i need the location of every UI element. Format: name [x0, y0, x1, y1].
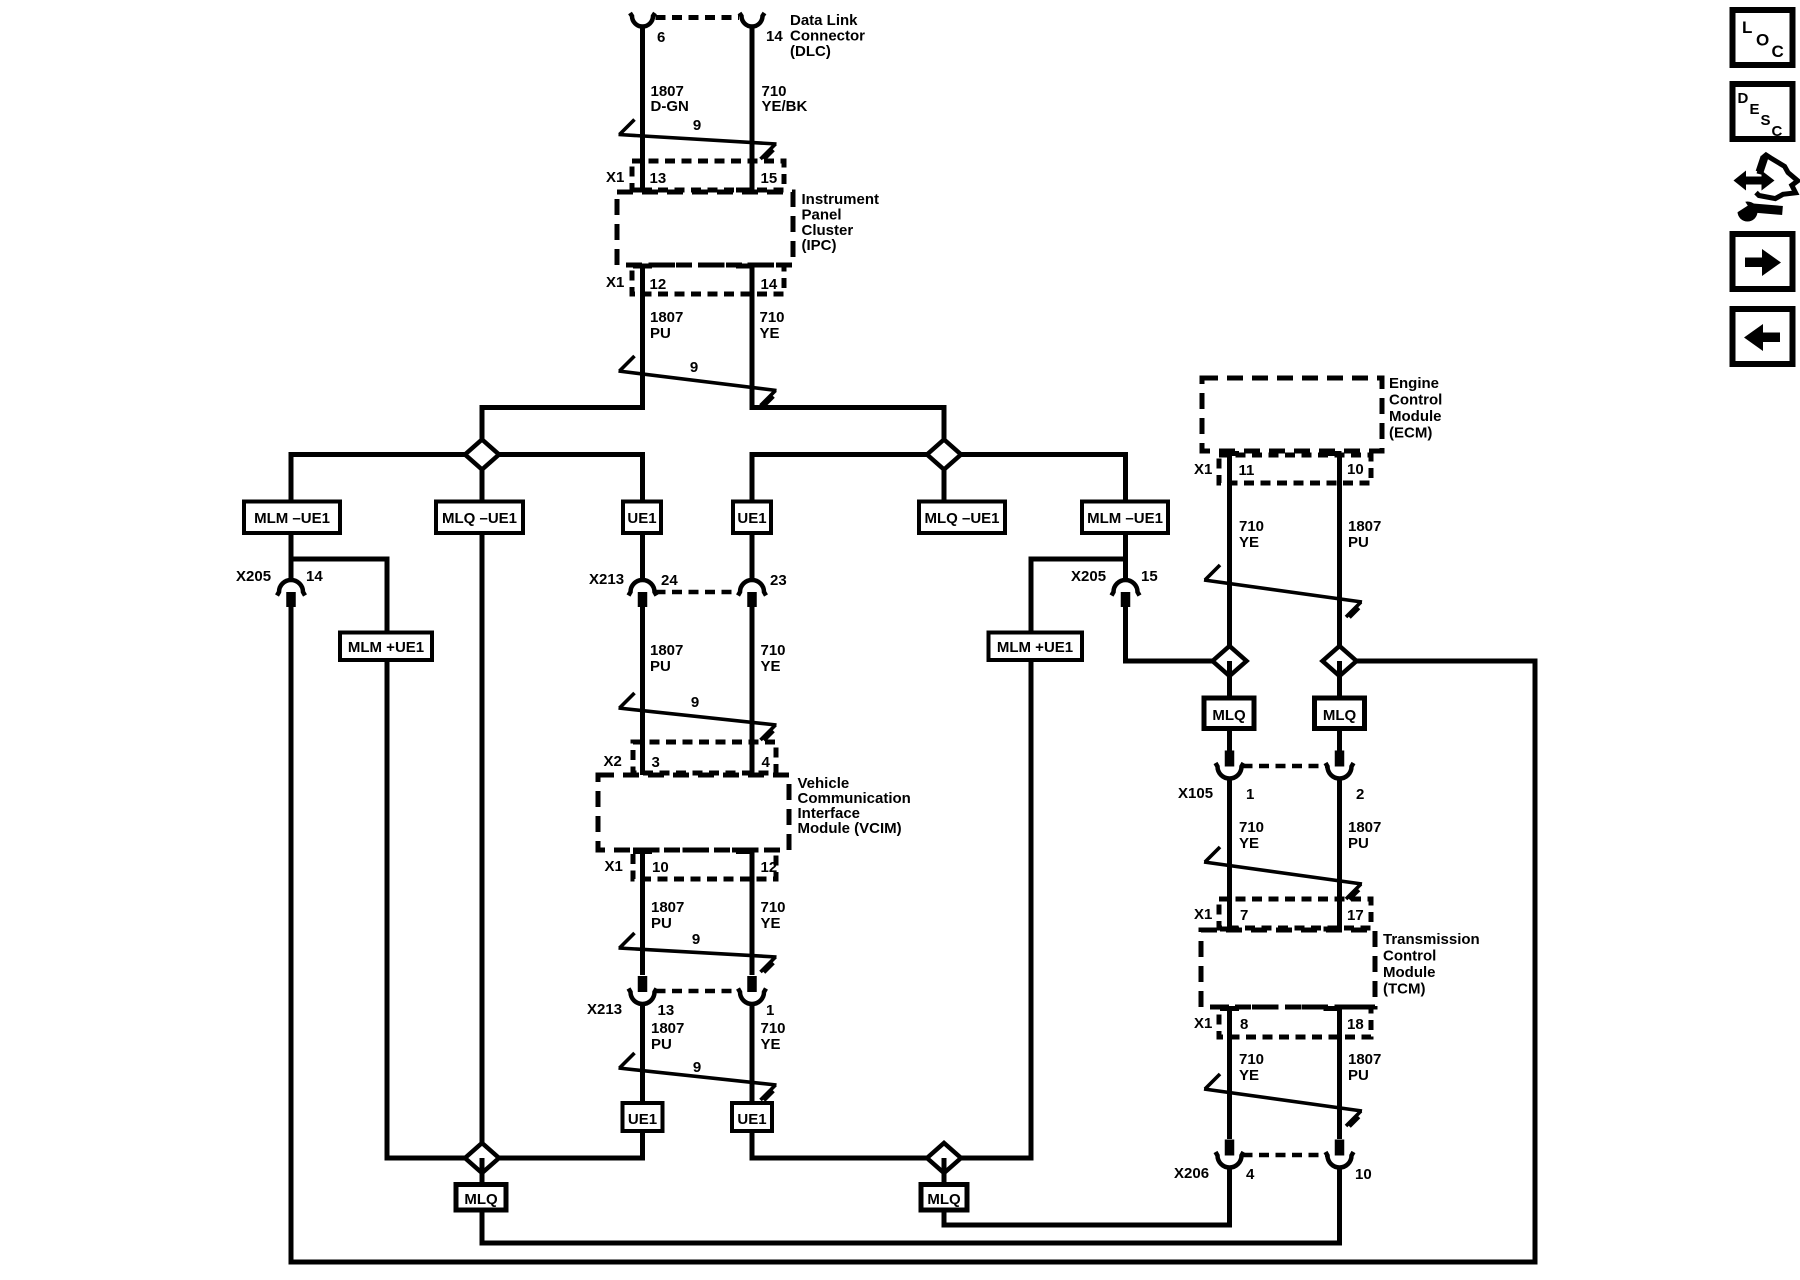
svg-text:710: 710 — [760, 309, 785, 326]
wire drop to MLM -UE1 right — [1123, 452, 1128, 502]
twisted pair symbol 9 (top) — [619, 135, 777, 145]
svg-text:X105: X105 — [1178, 785, 1213, 802]
X213 lower connector dashed link — [656, 989, 740, 994]
svg-text:UE1: UE1 — [627, 510, 656, 527]
svg-text:710: 710 — [1239, 1051, 1264, 1068]
svg-text:710: 710 — [761, 1020, 786, 1037]
svg-text:Engine: Engine — [1389, 375, 1439, 392]
wire 1807 PU to X206 — [1337, 1009, 1342, 1140]
wire drop to MLQ -UE1 left — [480, 455, 485, 502]
wire cap pin 11 — [1220, 451, 1239, 456]
svg-text:O: O — [1756, 31, 1769, 50]
wire 1807 PU from IPC pin 12 — [482, 266, 643, 455]
svg-text:9: 9 — [693, 1059, 701, 1076]
svg-text:15: 15 — [761, 170, 778, 187]
wire MLQ right to X206 pin 4 — [944, 1166, 1230, 1225]
connector X206 pin 4 — [1225, 1140, 1235, 1156]
net label box MLQ (1807) — [1315, 698, 1365, 729]
net label box UE1 (bottom right) — [732, 1103, 772, 1131]
DLC connector dashed link — [656, 15, 740, 20]
svg-text:X1: X1 — [605, 858, 623, 875]
svg-text:PU: PU — [1348, 534, 1369, 551]
svg-text:UE1: UE1 — [737, 1111, 766, 1128]
svg-text:YE/BK: YE/BK — [762, 98, 808, 115]
wire cap pin 17 — [1324, 927, 1342, 932]
wire diamond to MLQ box (1807) — [1337, 661, 1342, 698]
wire 710 YE from IPC pin 14 — [752, 266, 944, 455]
net label box UE1 (right) — [733, 502, 771, 534]
IPC connector row X1 pins 12/14 — [632, 265, 784, 294]
svg-text:(TCM): (TCM) — [1383, 981, 1425, 998]
wire MLM -UE1 right to X205 pin 15 — [1123, 533, 1128, 581]
junction diamond ECM 710 — [1213, 646, 1247, 676]
wire 1807 PU to TCM — [1337, 777, 1342, 929]
connector X205 pin 14 — [277, 580, 305, 596]
sidebar icon LOC box — [1733, 10, 1793, 65]
svg-text:9: 9 — [693, 117, 701, 134]
svg-text:10: 10 — [1347, 461, 1364, 478]
svg-text:1: 1 — [1246, 786, 1254, 803]
VCIM connector row X1 pins 10/12 — [633, 850, 776, 879]
svg-text:L: L — [1742, 18, 1752, 37]
svg-text:710: 710 — [1239, 518, 1264, 535]
connector DLC pin 14 (cup) — [740, 13, 765, 27]
svg-text:X1: X1 — [606, 274, 624, 291]
svg-text:1807: 1807 — [650, 642, 683, 659]
net label box MLQ -UE1 (left) — [436, 502, 523, 534]
net label box MLM +UE1 (right) — [989, 633, 1083, 661]
svg-text:MLM +UE1: MLM +UE1 — [348, 639, 424, 656]
svg-text:MLM –UE1: MLM –UE1 — [254, 510, 330, 527]
svg-text:9: 9 — [691, 694, 699, 711]
module box Instrument Panel Cluster — [617, 192, 793, 265]
wire UE1 left to X213 pin 24 — [640, 533, 645, 581]
wire MLQ -UE1 left vertical — [480, 533, 485, 1145]
wire UE1 right to X213 pin 23 — [750, 533, 755, 581]
wire MLQ to X105 pin 2 — [1337, 729, 1342, 753]
junction diamond bottom left — [465, 1143, 499, 1173]
wire cap pin 13 — [633, 188, 652, 193]
twisted pair symbol (TCM lower) — [1204, 1089, 1362, 1111]
svg-text:E: E — [1750, 101, 1760, 118]
svg-text:D: D — [1738, 90, 1749, 107]
VCIM connector row X2 pins 3/4 — [633, 742, 776, 773]
svg-text:1807: 1807 — [1348, 1051, 1381, 1068]
wire X205-15 to diamond — [1126, 606, 1230, 661]
net label box MLQ (bottom right) — [921, 1185, 967, 1211]
sidebar icon back arrow box — [1733, 309, 1793, 364]
svg-text:Module: Module — [1383, 964, 1436, 981]
wire cap pin 10 — [1324, 451, 1342, 456]
twisted pair symbol 9 (fourth) — [619, 948, 777, 957]
ECM connector row X1 pins 11/10 — [1219, 455, 1371, 483]
svg-text:Control: Control — [1389, 392, 1442, 409]
TCM connector row X1 pins 8/18 — [1219, 1007, 1371, 1037]
X105 connector dashed link — [1243, 764, 1327, 769]
svg-text:YE: YE — [1239, 835, 1259, 852]
wire 1807 PU from ECM pin 10 — [1337, 454, 1342, 662]
wire cap pin 18 — [1324, 1006, 1342, 1011]
wire X205-14 outer loop — [291, 606, 1535, 1262]
svg-text:MLQ: MLQ — [1323, 707, 1357, 724]
svg-text:X1: X1 — [1194, 461, 1212, 478]
svg-text:MLM +UE1: MLM +UE1 — [997, 639, 1073, 656]
X206 connector dashed link — [1243, 1153, 1327, 1158]
svg-text:4: 4 — [762, 754, 771, 771]
junction diamond bottom right — [927, 1143, 961, 1173]
net label box MLQ -UE1 (right) — [919, 502, 1005, 534]
module box Vehicle Communication Interface Module — [598, 775, 789, 850]
svg-text:1807: 1807 — [651, 1020, 684, 1037]
svg-text:C: C — [1772, 123, 1783, 140]
wire cap pin 10 — [633, 849, 652, 854]
svg-text:10: 10 — [652, 859, 669, 876]
bottom bus wire left — [387, 1156, 643, 1161]
net label box MLM +UE1 (left) — [340, 633, 432, 661]
svg-text:PU: PU — [1348, 1067, 1369, 1084]
twisted pair symbol (ECM) — [1204, 580, 1362, 602]
svg-text:6: 6 — [657, 29, 665, 46]
svg-text:(IPC): (IPC) — [802, 237, 837, 254]
svg-text:710: 710 — [761, 642, 786, 659]
svg-text:X205: X205 — [1071, 568, 1106, 585]
svg-text:MLQ –UE1: MLQ –UE1 — [442, 510, 517, 527]
bus wire right (UE1/MLQ/MLM) — [752, 452, 1126, 457]
svg-text:23: 23 — [770, 572, 787, 589]
svg-text:9: 9 — [690, 359, 698, 376]
connector X206 pin 10 — [1335, 1140, 1345, 1156]
wire drop to MLM -UE1 left — [289, 452, 294, 502]
svg-text:S: S — [1761, 112, 1771, 129]
twisted pair symbol 9 (fifth) — [619, 1068, 777, 1085]
wire cap pin 12 — [736, 849, 754, 854]
sidebar icon diagnostic arrows and wrench — [1734, 155, 1798, 222]
svg-text:X1: X1 — [1194, 1015, 1212, 1032]
svg-text:7: 7 — [1240, 907, 1248, 924]
twisted pair symbol 9 (second) — [619, 371, 777, 391]
svg-text:Transmission: Transmission — [1383, 931, 1480, 948]
svg-text:10: 10 — [1355, 1166, 1372, 1183]
wire MLQ left to X206 pin 10 — [482, 1166, 1340, 1243]
svg-text:9: 9 — [692, 931, 700, 948]
svg-text:(ECM): (ECM) — [1389, 425, 1432, 442]
svg-text:1: 1 — [766, 1002, 774, 1019]
svg-text:1807: 1807 — [1348, 518, 1381, 535]
wire 710 YE to X206 — [1227, 1009, 1232, 1140]
twisted pair symbol 9 (third) — [619, 708, 777, 725]
wire 710 YE/BK from DLC pin 14 — [750, 27, 755, 190]
svg-text:PU: PU — [651, 1036, 672, 1053]
svg-text:14: 14 — [761, 276, 778, 293]
svg-text:MLQ: MLQ — [1212, 707, 1246, 724]
IPC connector row X1 pins 13/15 — [632, 161, 784, 190]
connector X213 pin 23 — [738, 580, 766, 596]
TCM connector row X1 pins 7/17 — [1219, 899, 1371, 928]
svg-text:PU: PU — [650, 325, 671, 342]
wire 710 YE from VCIM pin 12 — [750, 852, 755, 976]
wire MLM -UE1 to X205 pin 14 — [289, 533, 294, 581]
svg-text:24: 24 — [661, 572, 678, 589]
svg-text:11: 11 — [1239, 462, 1255, 479]
svg-text:Connector: Connector — [790, 28, 865, 45]
svg-text:710: 710 — [761, 899, 786, 916]
wire 710 YE to VCIM — [750, 605, 755, 775]
wire 1807 PU to VCIM — [640, 605, 645, 775]
svg-text:MLQ: MLQ — [464, 1191, 498, 1208]
twisted pair symbol (TCM upper) — [1204, 862, 1362, 884]
svg-text:4: 4 — [1246, 1166, 1255, 1183]
branch wire to MLM +UE1 right — [1031, 559, 1126, 633]
bottom bus wire right — [752, 1156, 1031, 1161]
wire 1807 D-GN from DLC pin 6 — [640, 27, 645, 190]
connector X105 pin 1 — [1225, 751, 1235, 767]
wire cap pin 14 — [736, 264, 754, 269]
svg-text:8: 8 — [1240, 1016, 1248, 1033]
svg-text:MLQ –UE1: MLQ –UE1 — [924, 510, 999, 527]
svg-text:15: 15 — [1141, 568, 1158, 585]
svg-text:YE: YE — [761, 915, 781, 932]
module box Transmission Control Module — [1201, 930, 1375, 1007]
svg-text:14: 14 — [766, 28, 783, 45]
module box Engine Control Module — [1202, 378, 1382, 451]
svg-text:12: 12 — [761, 859, 778, 876]
junction diamond ECM 1807 — [1323, 646, 1357, 676]
wire cap pin 15 — [736, 188, 754, 193]
wire MLM +UE1 right to bottom bus — [1029, 660, 1034, 1161]
svg-text:12: 12 — [650, 276, 667, 293]
wire 710 YE to UE1 — [750, 1002, 755, 1161]
sidebar icon DESC box — [1733, 84, 1793, 139]
connector X213 pin 24 — [629, 580, 657, 596]
wire cap pin 12 — [633, 264, 652, 269]
svg-text:MLM –UE1: MLM –UE1 — [1087, 510, 1163, 527]
connector X105 pin 2 — [1335, 751, 1345, 767]
svg-text:1807: 1807 — [650, 309, 683, 326]
svg-text:X1: X1 — [606, 169, 624, 186]
svg-text:UE1: UE1 — [628, 1111, 657, 1128]
wire drop to MLQ -UE1 right — [942, 455, 947, 502]
svg-text:C: C — [1772, 42, 1784, 61]
svg-text:X213: X213 — [587, 1001, 622, 1018]
net label box MLQ (710) — [1204, 698, 1254, 729]
net label box MLM -UE1 (right) — [1082, 502, 1168, 534]
svg-text:PU: PU — [650, 658, 671, 675]
junction diamond left bus — [465, 440, 499, 470]
svg-text:X2: X2 — [604, 753, 622, 770]
svg-text:14: 14 — [306, 568, 323, 585]
wire drop to UE1 right — [750, 452, 755, 502]
wire 1807 PU from VCIM pin 10 — [640, 852, 645, 976]
svg-text:PU: PU — [1348, 835, 1369, 852]
svg-text:UE1: UE1 — [737, 510, 766, 527]
connector X213 pin 1 — [747, 976, 757, 992]
svg-text:MLQ: MLQ — [927, 1191, 961, 1208]
svg-text:YE: YE — [760, 325, 780, 342]
wire cap pin 7 — [1220, 927, 1239, 932]
X213 connector dashed link — [656, 590, 740, 595]
svg-text:Module: Module — [1389, 408, 1442, 425]
sidebar icon forward arrow box — [1733, 234, 1793, 289]
svg-text:(DLC): (DLC) — [790, 43, 831, 60]
svg-text:13: 13 — [650, 170, 667, 187]
bus wire left (MLM/MLQ/UE1) — [291, 452, 643, 457]
svg-text:1807: 1807 — [651, 899, 684, 916]
net label box UE1 (left) — [623, 502, 661, 534]
svg-text:X213: X213 — [589, 571, 624, 588]
svg-text:YE: YE — [1239, 534, 1259, 551]
svg-text:Control: Control — [1383, 948, 1436, 965]
connector X205 pin 15 — [1112, 580, 1140, 596]
svg-text:18: 18 — [1347, 1016, 1364, 1033]
wire drop to UE1 left — [640, 452, 645, 502]
net label box UE1 (bottom left) — [623, 1103, 663, 1131]
wire diamond to MLQ box (710) — [1227, 661, 1232, 698]
svg-text:D-GN: D-GN — [651, 98, 689, 115]
net label box MLM -UE1 (left) — [244, 502, 340, 534]
svg-text:X205: X205 — [236, 568, 271, 585]
wire cap pin 8 — [1220, 1006, 1239, 1011]
wire 710 YE to TCM — [1227, 777, 1232, 929]
svg-text:Data Link: Data Link — [790, 12, 858, 29]
svg-text:710: 710 — [1239, 819, 1264, 836]
junction diamond right bus — [927, 440, 961, 470]
svg-text:13: 13 — [658, 1002, 675, 1019]
connector DLC pin 6 (cup) — [630, 13, 655, 27]
svg-text:X206: X206 — [1174, 1165, 1209, 1182]
wire 1807 PU to UE1 — [640, 1002, 645, 1161]
wire diamond to MLQ box left — [480, 1158, 485, 1185]
svg-text:YE: YE — [1239, 1067, 1259, 1084]
svg-text:3: 3 — [652, 754, 660, 771]
svg-text:17: 17 — [1347, 907, 1364, 924]
svg-text:X1: X1 — [1194, 906, 1212, 923]
branch wire to MLM +UE1 left — [291, 559, 387, 633]
svg-text:PU: PU — [651, 915, 672, 932]
wire diamond to MLQ box right — [942, 1158, 947, 1185]
net label box MLQ (bottom left) — [456, 1185, 506, 1211]
svg-text:YE: YE — [761, 1036, 781, 1053]
svg-text:2: 2 — [1356, 786, 1364, 803]
connector X213 pin 13 — [638, 976, 648, 992]
svg-text:1807: 1807 — [1348, 819, 1381, 836]
svg-text:YE: YE — [761, 658, 781, 675]
wire MLQ to X105 pin 1 — [1227, 729, 1232, 753]
svg-text:Module (VCIM): Module (VCIM) — [798, 820, 902, 837]
wire 710 YE from ECM pin 11 — [1227, 454, 1232, 662]
wire MLM +UE1 left to bottom bus — [385, 660, 390, 1161]
